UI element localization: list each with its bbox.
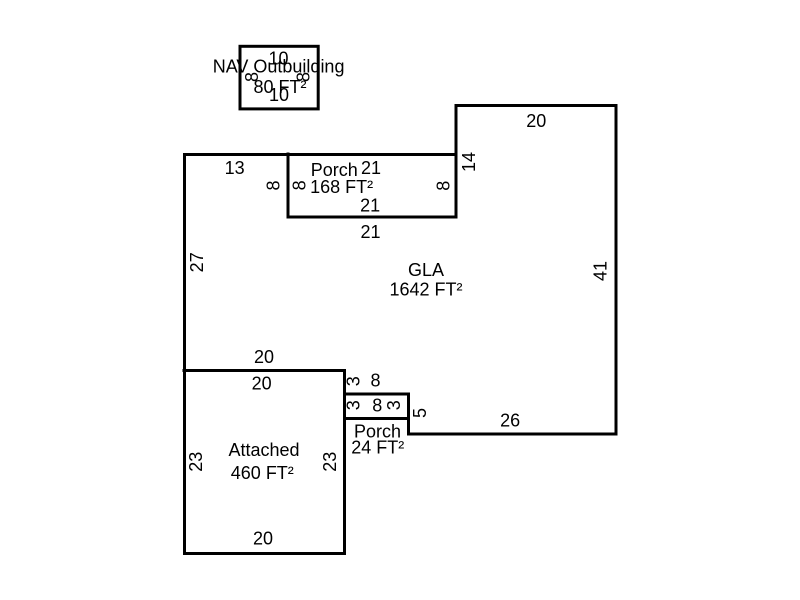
wire: top edge GLA/porch y=154 [183, 153, 458, 156]
svg-text:460 FT²: 460 FT² [231, 463, 294, 483]
svg-text:8: 8 [434, 181, 454, 191]
svg-text:5: 5 [410, 408, 430, 418]
svg-text:168 FT²: 168 FT² [310, 177, 373, 197]
svg-text:10: 10 [269, 85, 289, 105]
svg-text:Attached: Attached [228, 440, 299, 460]
wire: porch24 right / 5ft edge x=408.5 [407, 393, 410, 436]
svg-text:27: 27 [187, 252, 207, 272]
wire: GLA bottom-left / attached top y=370.5 [183, 369, 347, 372]
svg-text:14: 14 [459, 152, 479, 172]
svg-text:26: 26 [500, 410, 520, 430]
wire: porch right x=456 [455, 104, 458, 219]
svg-text:3: 3 [384, 400, 404, 410]
svg-text:8: 8 [370, 370, 380, 390]
svg-text:21: 21 [360, 222, 380, 242]
svg-text:3: 3 [344, 400, 364, 410]
svg-text:8: 8 [372, 396, 382, 416]
svg-text:21: 21 [361, 158, 381, 178]
svg-text:41: 41 [590, 261, 610, 281]
wire: porch left x=288 [287, 153, 290, 219]
wire: porch24 bottom y=418.5 [343, 417, 410, 420]
wire: porch bottom y=216.5 [287, 216, 458, 219]
svg-text:8: 8 [290, 180, 310, 190]
svg-text:3: 3 [344, 376, 364, 386]
wire: left wall x=184 [183, 153, 186, 555]
wire: GLA bottom y=433.5 [407, 433, 618, 436]
svg-text:20: 20 [254, 347, 274, 367]
svg-text:20: 20 [252, 374, 272, 394]
svg-text:13: 13 [225, 158, 245, 178]
wire: attached bottom y=553 [183, 552, 346, 555]
svg-text:21: 21 [360, 196, 380, 216]
svg-text:20: 20 [526, 111, 546, 131]
wire: attached right x=344.5 [343, 369, 346, 555]
svg-text:23: 23 [186, 452, 206, 472]
svg-text:NAV Outbuilding: NAV Outbuilding [213, 57, 345, 77]
outbuilding rectangle [240, 46, 318, 109]
svg-text:8: 8 [264, 180, 284, 190]
svg-text:23: 23 [320, 452, 340, 472]
wire: right wall x=616 [615, 104, 618, 436]
wire: top edge right section y=105 [455, 104, 618, 107]
svg-text:1642 FT²: 1642 FT² [389, 280, 462, 300]
wire: porch24 top y=394 [343, 393, 410, 396]
svg-text:24 FT²: 24 FT² [351, 438, 404, 458]
svg-text:GLA: GLA [408, 260, 444, 280]
svg-text:20: 20 [253, 529, 273, 549]
